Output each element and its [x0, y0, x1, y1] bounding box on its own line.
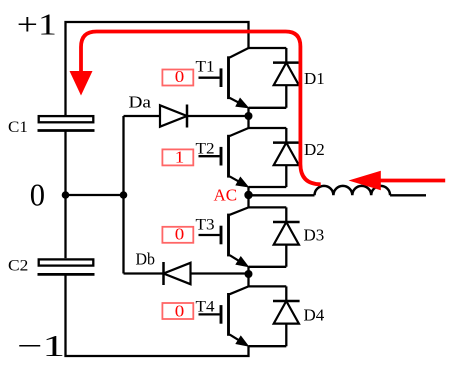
- wire top rail from +1 corner to chain top: [66, 22, 249, 115]
- diode D3: [273, 207, 300, 266]
- red load current arrow line: [376, 179, 445, 183]
- svg-text:1: 1: [175, 148, 185, 167]
- svg-text:0: 0: [175, 302, 185, 321]
- transistor T1 (IGBT): [199, 48, 249, 108]
- transistor T3 (IGBT): [199, 207, 249, 266]
- wire AC to T3 collector: [247, 195, 249, 207]
- svg-text:T4: T4: [196, 298, 215, 315]
- wire left rail between 0 node and C2: [64, 195, 66, 258]
- inductor L (4 bumps): [315, 186, 391, 195]
- gate state box T3 value 0: [162, 225, 193, 244]
- diode Da: [160, 105, 187, 128]
- svg-text:D3: D3: [304, 226, 325, 245]
- red current path arrowhead (down): [70, 71, 93, 96]
- transistor T2 (IGBT): [199, 128, 249, 187]
- capacitor C2: [38, 259, 95, 274]
- red load current arrowhead (left): [349, 171, 381, 190]
- gate state box T4 value 0: [162, 302, 193, 321]
- svg-text:0: 0: [30, 177, 45, 213]
- wire T3 collector to D3: [249, 206, 287, 208]
- wire left rail from C2 to bottom rail and bottom wire to chain: [66, 274, 249, 356]
- svg-text:AC: AC: [214, 185, 238, 204]
- wire left rail between C1 and 0 node: [64, 131, 66, 196]
- svg-text:D4: D4: [304, 305, 325, 324]
- transistor T4 (IGBT): [199, 286, 249, 346]
- wire Db row (middle rail to chain junction): [124, 272, 249, 274]
- capacitor C1: [38, 116, 95, 130]
- svg-text:+1: +1: [17, 7, 57, 42]
- gate state box T1 value 0: [162, 67, 193, 86]
- wire inductor to output end: [390, 194, 426, 196]
- svg-text:Da: Da: [129, 93, 152, 112]
- gate state box T2 value 1: [162, 148, 193, 167]
- wire T3 emitter row to D3 anode: [249, 267, 287, 287]
- wire T1 emitter row to D1 anode: [249, 108, 287, 128]
- wire AC output to inductor: [249, 194, 315, 196]
- wire T4 emitter row to D4 anode: [249, 345, 287, 347]
- wire T2 collector to D2: [249, 127, 287, 129]
- svg-text:0: 0: [175, 225, 185, 244]
- svg-text:C1: C1: [8, 119, 28, 136]
- svg-text:Db: Db: [136, 249, 156, 268]
- svg-text:T1: T1: [196, 58, 215, 75]
- wire 0 node horizontal: [66, 194, 124, 196]
- diode D4: [273, 286, 300, 346]
- junction node 0 on middle rail: [120, 191, 128, 199]
- diode D2: [273, 128, 300, 187]
- svg-text:T2: T2: [196, 141, 215, 158]
- svg-text:0: 0: [175, 67, 185, 86]
- red current path through T1/D1 leg: [81, 32, 321, 185]
- diode Db: [164, 262, 191, 285]
- svg-text:−1: −1: [17, 328, 65, 363]
- svg-text:C2: C2: [8, 258, 28, 275]
- diode D1: [273, 48, 300, 108]
- wire Da row (middle rail to chain junction): [124, 115, 249, 117]
- svg-text:D1: D1: [304, 69, 325, 88]
- wire T4 collector to D4: [249, 285, 287, 287]
- svg-text:D2: D2: [304, 140, 325, 159]
- wire T2 emitter row to D2 anode: [249, 187, 287, 195]
- junction node T1/T2/Da: [245, 112, 253, 120]
- wire middle rail vertical (Da to Db): [122, 116, 124, 274]
- junction node T3/T4/Db: [245, 270, 253, 278]
- svg-text:T3: T3: [196, 217, 215, 234]
- node AC junction dot: [244, 191, 252, 199]
- junction node 0 on left rail: [62, 191, 70, 199]
- wire T1 collector to D1: [249, 47, 287, 49]
